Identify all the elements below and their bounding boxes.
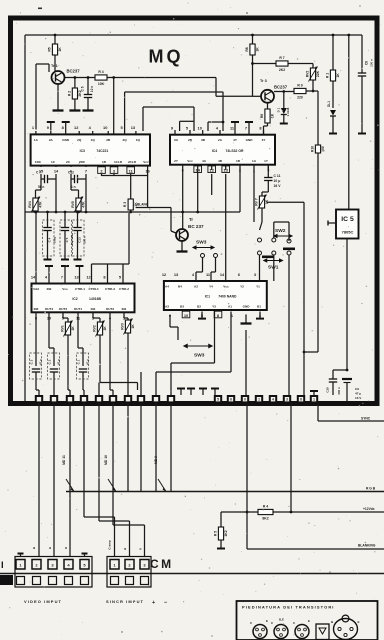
svg-text:14016B: 14016B: [89, 297, 101, 301]
svg-text:2CLR: 2CLR: [128, 160, 137, 164]
svg-text:1K: 1K: [336, 73, 340, 78]
svg-text:E: E: [358, 620, 360, 624]
svg-text:100 n: 100 n: [82, 236, 86, 243]
svg-text:IN4: IN4: [91, 307, 96, 311]
svg-text:Y1: Y1: [256, 285, 260, 289]
svg-text:Vss: Vss: [62, 287, 68, 291]
svg-text:BC237: BC237: [67, 69, 81, 74]
svg-text:OUT3: OUT3: [59, 307, 68, 311]
svg-text:C9: C9: [355, 387, 359, 391]
svg-text:22K: 22K: [316, 70, 320, 77]
svg-text:7: 7: [245, 126, 247, 131]
svg-text:4: 4: [272, 398, 274, 402]
svg-text:2Q: 2Q: [77, 138, 82, 142]
svg-text:RV2: RV2: [305, 71, 309, 78]
svg-text:−: −: [164, 600, 167, 606]
svg-text:10 n: 10 n: [90, 86, 94, 92]
svg-text:MQ: MQ: [149, 47, 184, 67]
svg-text:0: 0: [244, 398, 246, 402]
svg-text:SYNC: SYNC: [361, 417, 371, 421]
svg-text:2K2: 2K2: [279, 68, 285, 72]
svg-text:I: I: [1, 560, 4, 571]
svg-text:IN1: IN1: [122, 307, 127, 311]
svg-text:Vdd: Vdd: [33, 287, 39, 291]
svg-text:RV 7: RV 7: [254, 198, 258, 206]
svg-text:7: 7: [85, 169, 87, 174]
svg-text:RV1: RV1: [60, 325, 64, 332]
svg-text:R 4: R 4: [263, 504, 268, 508]
svg-text:47 μ: 47 μ: [86, 359, 90, 365]
svg-text:GND: GND: [243, 305, 251, 309]
svg-text:R 7: R 7: [279, 56, 284, 60]
svg-text:16 V: 16 V: [274, 184, 282, 188]
svg-text:C 5: C 5: [65, 237, 69, 242]
svg-text:B3: B3: [180, 305, 184, 309]
svg-text:Y2: Y2: [240, 285, 244, 289]
svg-text:DL1: DL1: [327, 101, 331, 107]
svg-text:Vcc: Vcc: [187, 159, 193, 163]
svg-text:IC 5: IC 5: [341, 216, 354, 223]
svg-text:RV5: RV5: [71, 201, 75, 208]
svg-text:8: 8: [300, 398, 302, 402]
svg-text:Y4: Y4: [209, 285, 213, 289]
svg-text:IN3: IN3: [34, 307, 39, 311]
svg-text:1K: 1K: [58, 47, 62, 52]
svg-text:2Q: 2Q: [123, 138, 128, 142]
svg-text:C13: C13: [78, 237, 82, 243]
svg-text:10μ 10V: 10μ 10V: [70, 235, 74, 246]
svg-text:C 2: C 2: [48, 359, 52, 364]
svg-text:RV3: RV3: [120, 323, 124, 330]
svg-text:C 6: C 6: [81, 86, 85, 91]
svg-text:IC2: IC2: [72, 297, 77, 301]
svg-text:IN2: IN2: [47, 287, 52, 291]
svg-text:R 3: R 3: [123, 202, 127, 207]
svg-text:1 4148: 1 4148: [286, 107, 290, 116]
svg-text:OUT2: OUT2: [106, 307, 115, 311]
svg-text:7400 NAND: 7400 NAND: [218, 295, 237, 299]
svg-text:IC4: IC4: [212, 149, 217, 153]
svg-text:B4: B4: [178, 285, 182, 289]
svg-text:47K: 47K: [39, 201, 43, 208]
svg-text:CM: CM: [150, 557, 174, 571]
svg-text:GND: GND: [62, 138, 70, 142]
svg-text:47 μ: 47 μ: [355, 392, 361, 396]
svg-text:C-amp: C-amp: [108, 540, 112, 550]
svg-text:C 11: C 11: [274, 174, 281, 178]
svg-text:R8: R8: [245, 47, 249, 51]
svg-text:B2: B2: [197, 305, 201, 309]
svg-text:56 n: 56 n: [38, 185, 44, 189]
svg-text:1K: 1K: [71, 326, 75, 331]
svg-text:1RC: 1RC: [35, 160, 42, 164]
svg-text:1K: 1K: [265, 199, 269, 204]
svg-text:CTRL3: CTRL3: [105, 287, 115, 291]
svg-text:BLANKING: BLANKING: [358, 544, 376, 548]
svg-text:C 3: C 3: [30, 359, 34, 364]
svg-text:BC237: BC237: [274, 85, 288, 90]
svg-text:220: 220: [297, 96, 303, 100]
svg-text:BLANK: BLANK: [137, 203, 149, 207]
svg-text:3: 3: [286, 398, 288, 402]
svg-text:R5: R5: [47, 47, 51, 51]
svg-text:C10: C10: [326, 387, 330, 393]
svg-text:OUT1: OUT1: [74, 307, 83, 311]
svg-text:E: E: [266, 619, 268, 623]
svg-text:R G B: R G B: [366, 487, 376, 491]
svg-text:Y3: Y3: [212, 305, 216, 309]
svg-text:1Q: 1Q: [136, 138, 141, 142]
svg-text:7805C: 7805C: [342, 230, 354, 235]
svg-text:C 1: C 1: [77, 359, 81, 364]
svg-text:CTRL4: CTRL4: [89, 287, 99, 291]
svg-text:R 5: R 5: [213, 531, 217, 536]
svg-text:RV4: RV4: [28, 201, 32, 208]
svg-text:+: +: [152, 600, 155, 606]
svg-text:2RC: 2RC: [79, 160, 86, 164]
svg-text:74C221: 74C221: [96, 149, 108, 153]
svg-text:A4: A4: [165, 285, 169, 289]
svg-text:16 V: 16 V: [355, 396, 362, 400]
svg-text:PIEDINATURA DEI TRANSISTOR: PIEDINATURA DEI TRANSISTORI: [242, 605, 335, 610]
svg-text:47K: 47K: [82, 201, 86, 208]
svg-text:10K: 10K: [98, 82, 105, 86]
svg-text:BC 237: BC 237: [188, 224, 204, 229]
svg-text:1K2: 1K2: [224, 530, 228, 536]
svg-text:OUT4: OUT4: [45, 307, 54, 311]
svg-text:10 μ: 10 μ: [274, 179, 281, 183]
svg-text:MD 10: MD 10: [104, 455, 108, 465]
svg-text:CTRL2: CTRL2: [119, 287, 129, 291]
svg-text:1Q: 1Q: [91, 138, 96, 142]
svg-text:10: 10: [198, 126, 202, 131]
svg-text:Tr: Tr: [189, 217, 193, 222]
svg-text:V: V: [139, 548, 143, 550]
svg-text:1: 1: [258, 398, 260, 402]
svg-text:Vcc: Vcc: [223, 285, 229, 289]
svg-text:R10: R10: [310, 146, 314, 152]
svg-text:1K: 1K: [256, 47, 260, 52]
svg-text:SW3: SW3: [196, 240, 207, 246]
svg-text:R 1: R 1: [325, 73, 329, 78]
svg-text:R6: R6: [260, 114, 264, 118]
svg-text:C8: C8: [365, 61, 369, 65]
svg-text:1 n: 1 n: [71, 185, 76, 189]
svg-text:H: H: [123, 548, 127, 550]
svg-text:E: E: [308, 619, 310, 623]
svg-text:8K2: 8K2: [262, 517, 268, 521]
svg-text:Tr 3: Tr 3: [260, 79, 267, 83]
svg-text:5: 5: [217, 398, 219, 402]
svg-text:6: 6: [230, 398, 232, 402]
svg-text:Tr 1: Tr 1: [51, 64, 58, 68]
svg-text:10: 10: [184, 313, 188, 318]
svg-text:MD 11: MD 11: [62, 455, 66, 465]
svg-text:330 n: 330 n: [337, 387, 341, 395]
svg-text:IC1: IC1: [205, 295, 210, 299]
svg-text:A2: A2: [194, 285, 198, 289]
svg-text:1: 1: [313, 398, 315, 402]
svg-text:IC3: IC3: [80, 149, 85, 153]
svg-text:C 4: C 4: [48, 237, 52, 242]
svg-text:A1: A1: [228, 305, 232, 309]
svg-text:1K: 1K: [271, 113, 275, 118]
svg-text:100 n: 100 n: [370, 59, 374, 67]
svg-text:B,E: B,E: [279, 618, 284, 622]
svg-text:SW2: SW2: [275, 228, 286, 234]
svg-text:Vcc: Vcc: [143, 160, 149, 164]
svg-text:10: 10: [103, 125, 107, 130]
svg-text:R 2: R 2: [67, 91, 71, 96]
svg-text:C 7: C 7: [36, 171, 41, 175]
svg-text:1K: 1K: [131, 324, 135, 329]
svg-text:D 1: D 1: [277, 107, 281, 112]
svg-text:R 9: R 9: [297, 83, 302, 87]
svg-text:100μ: 100μ: [52, 237, 56, 244]
svg-text:VIDEO IMPUT: VIDEO IMPUT: [24, 599, 62, 604]
svg-text:A3: A3: [165, 305, 169, 309]
svg-text:1K: 1K: [103, 326, 107, 331]
svg-text:R 4: R 4: [98, 70, 103, 74]
svg-text:MD 9: MD 9: [154, 456, 158, 464]
svg-text:74LS32 OR: 74LS32 OR: [226, 149, 244, 153]
svg-text:SW3: SW3: [194, 353, 205, 359]
svg-text:47 μ: 47 μ: [57, 359, 61, 365]
svg-text:B1: B1: [257, 305, 261, 309]
svg-text:C12: C12: [68, 171, 74, 175]
svg-text:+12Vdc: +12Vdc: [363, 507, 375, 511]
svg-text:GND: GND: [246, 138, 254, 142]
svg-text:CTRL1: CTRL1: [75, 287, 85, 291]
svg-text:SINCR IMPUT: SINCR IMPUT: [106, 599, 144, 604]
svg-text:1CLR: 1CLR: [114, 160, 123, 164]
svg-text:47 μ: 47 μ: [39, 359, 43, 365]
svg-text:RV2: RV2: [92, 325, 96, 332]
